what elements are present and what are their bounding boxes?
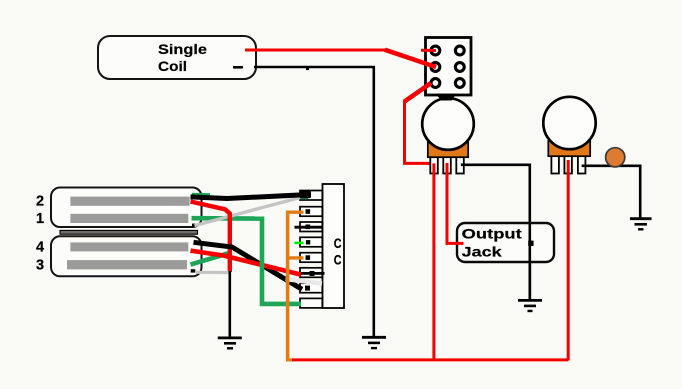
wire red tone lug2 down to rail (567, 160, 570, 361)
pot VOL base (428, 142, 468, 157)
junction dot inside jack (528, 241, 533, 246)
pin 4 dot (306, 240, 310, 244)
wire black from coil 4 to pin 7 (194, 242, 303, 289)
ground G1 below pickup wires (218, 338, 242, 348)
pot VOL lug 2 (443, 154, 451, 174)
selector pin 2 (300, 207, 322, 217)
output jack box (457, 223, 554, 262)
wire orange from pin 2 and pin 5 down to bottom rail (286, 211, 304, 360)
switch S1 hole A3 (431, 79, 440, 88)
selector pin 4 (300, 237, 322, 247)
selector pin 3 (300, 222, 322, 232)
wire black drop to ground G1 (229, 271, 232, 338)
capacitor C1 (606, 148, 625, 167)
coil bar 4 (70, 242, 188, 251)
wire red volume lug1 down to rail (432, 163, 435, 360)
wire black tone lug3 to ground via capacitor (582, 166, 641, 218)
terminal dot top bobbin corner (192, 224, 197, 227)
pin 3 jumper stub (295, 226, 323, 229)
wire black from single coil to ground (hot dash) (233, 67, 374, 336)
pot TONE lug 1 (551, 154, 559, 174)
pin 6 dot (310, 271, 315, 276)
wire green coil 1 horizontal run (192, 216, 265, 221)
wire black through jack continuing to ground (528, 223, 531, 299)
svg-text:Single: Single (158, 42, 208, 57)
svg-text:Output: Output (462, 227, 523, 242)
pot TONE lug 2 (564, 154, 572, 174)
switch S1 hole A2 (431, 63, 440, 72)
svg-text:2: 2 (36, 194, 44, 210)
pickup P1 single coil box (98, 36, 256, 79)
svg-text:C: C (334, 252, 342, 267)
switch S1 body (426, 38, 472, 96)
pot VOL lug 3 (456, 154, 464, 174)
pot TONE base (548, 141, 590, 156)
ground G2 below single coil wire (362, 337, 386, 348)
terminal dot bottom bobbin corner (191, 269, 196, 272)
pin 5 dot (306, 255, 311, 260)
switch S1 hole B3 (455, 79, 464, 88)
humbucker top bobbin box (51, 188, 202, 228)
wire red single coil hot to switch (245, 50, 436, 67)
wire green from coil 3 diagonal (191, 253, 232, 265)
wire green vertical run to pin 8 (262, 217, 301, 304)
pin 4 green stub (295, 242, 304, 245)
wire green stub from bar2 to pin 1 (under black) (192, 194, 308, 197)
selector pin 6 (300, 268, 322, 278)
pin 7 dot (305, 286, 310, 291)
wire red switch bottom hole to volume pot lug 1 (405, 83, 435, 163)
pot VOL body circle (422, 98, 474, 150)
pot TONE body circle (543, 97, 595, 149)
wire gray from bottom bobbin corner (196, 271, 231, 275)
selector switch body (323, 184, 345, 308)
coil bar 3 (67, 260, 187, 269)
selector pin 8 (300, 298, 322, 308)
pot TONE lug 3 (578, 154, 586, 174)
svg-text:1: 1 (36, 211, 44, 227)
wire white to pin 7 area (286, 279, 323, 284)
svg-text:C: C (334, 236, 342, 251)
ground G3 below output jack (518, 300, 542, 311)
wire red from coil 2 down to ground junction (191, 202, 230, 273)
selector pin 1 (300, 191, 322, 201)
ground G4 right of capacitor (630, 219, 652, 230)
wire red from coil 4 to pin 6 (191, 251, 302, 275)
wire red volume lug2 to output jack (447, 163, 464, 243)
pin 3 dot (306, 225, 311, 230)
wire black from coil 2 to pin 1 (191, 190, 312, 198)
switch S1 hole B2 (455, 63, 464, 72)
selector pin 7 (300, 283, 322, 293)
svg-text:4: 4 (36, 240, 44, 256)
coil bar 1 (70, 214, 188, 223)
humbucker middle spacer bar (60, 230, 198, 234)
wire black volume lug3 to output jack and ground (461, 165, 530, 299)
wire red stub into switch top hole (421, 49, 436, 52)
humbucker bottom bobbin box (51, 236, 202, 276)
switch S1 hole B1 (455, 46, 464, 55)
svg-text:Coil: Coil (158, 59, 187, 74)
pin 2 dot (306, 209, 311, 214)
pin 6 jumper stub (301, 272, 325, 275)
wire gray from top bobbin corner to pin 1 (195, 198, 301, 226)
wire red bottom rail (292, 358, 568, 361)
svg-text:Jack: Jack (462, 245, 503, 260)
svg-text:3: 3 (36, 258, 44, 274)
switch S1 hole A1 (431, 46, 440, 55)
selector pin 5 (300, 253, 322, 263)
pot VOL lug 1 (430, 154, 438, 174)
coil bar 2 (70, 197, 189, 206)
shaft connector between switch and volume pot (436, 94, 457, 101)
